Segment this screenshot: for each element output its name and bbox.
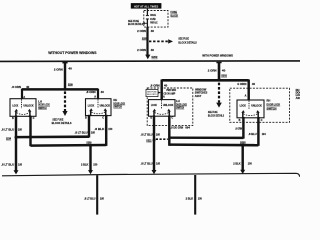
svg-text:2 ORN: 2 ORN <box>137 29 146 33</box>
svg-text:195: 195 <box>18 127 22 131</box>
svg-text:.8 LT BLU: .8 LT BLU <box>1 163 14 167</box>
wire label .8 LT BLU 195 bottom <box>1 163 22 167</box>
unlock bus wire <box>31 144 107 147</box>
see fuse block details note <box>208 110 224 118</box>
feed tick at separator <box>216 62 221 64</box>
svg-text:WITH POWER WINDOWS: WITH POWER WINDOWS <box>202 53 233 57</box>
RH door lock switch box <box>86 99 112 116</box>
arrow into S202 <box>145 55 150 60</box>
see fuse block ref box <box>146 89 161 96</box>
wire below breaker <box>146 19 148 27</box>
svg-text:CB 30 AMP: CB 30 AMP <box>163 92 175 96</box>
svg-text:C: C <box>33 117 35 120</box>
svg-text:SEE FUSE: SEE FUSE <box>147 91 157 93</box>
RH switch name label <box>267 98 281 110</box>
dashed link wire <box>156 138 168 140</box>
section separator line <box>0 60 300 63</box>
svg-text:40: 40 <box>151 29 155 33</box>
actuator feed wire <box>241 145 243 171</box>
switch throw contacts <box>241 110 259 118</box>
switch throw contacts <box>14 109 31 116</box>
switch throw contacts <box>153 109 171 116</box>
pivot dashed <box>97 99 99 108</box>
wire label .8 BLU 194 <box>248 132 266 136</box>
svg-text:HOT AT ALL TIMES: HOT AT ALL TIMES <box>134 5 159 9</box>
see fuse block details note left <box>128 19 143 26</box>
svg-text:LOCK: LOCK <box>151 103 157 107</box>
svg-text:UNLOCK: UNLOCK <box>100 103 110 107</box>
svg-text:.8 ORN: .8 ORN <box>11 85 21 89</box>
splice S209 label <box>68 82 73 86</box>
RH unlock wire down <box>257 118 259 146</box>
feed to actuators wire <box>89 145 91 171</box>
splice dot <box>89 144 92 147</box>
svg-text:C: C <box>102 117 104 120</box>
svg-text:BLOCK DETAILS: BLOCK DETAILS <box>128 22 143 26</box>
svg-text:UNLOCK: UNLOCK <box>251 104 262 108</box>
wire label 2 ORN 40 lower <box>137 48 154 52</box>
wire label .8 ORN 40 right <box>86 90 104 94</box>
LH switch name label <box>176 99 187 109</box>
RH power door lock switch box <box>237 100 264 118</box>
svg-text:LOCK: LOCK <box>12 103 18 107</box>
svg-text:40: 40 <box>222 68 226 72</box>
wire label .8 LT BLU 195 <box>1 127 22 131</box>
wire label .8 ORN 40 <box>150 83 168 87</box>
svg-text:40: 40 <box>151 48 155 52</box>
wire label .8 LT BLU 195 <box>75 130 96 134</box>
svg-text:S234: S234 <box>6 137 11 141</box>
I/P fuse block label <box>171 10 179 17</box>
drop wire to RH control <box>247 80 249 101</box>
svg-text:.8 DK GRN: .8 DK GRN <box>171 125 184 129</box>
svg-text:150: 150 <box>108 127 112 131</box>
circuit breaker U1 <box>146 15 149 20</box>
svg-text:BLOCK DETAILS: BLOCK DETAILS <box>208 114 224 118</box>
breaker value label <box>150 13 158 25</box>
wire label 4 ORN 40 <box>237 82 255 86</box>
feed bus wire <box>162 79 249 82</box>
pivot dashed <box>248 101 250 110</box>
svg-text:40: 40 <box>164 83 168 87</box>
pin junction blocks <box>153 115 155 117</box>
splice S202 label <box>151 55 157 59</box>
wire label .8 LT BLU 195 bottom <box>141 162 161 166</box>
RH control dashed box <box>230 88 290 122</box>
splice dot <box>64 88 67 91</box>
svg-text:195: 195 <box>18 163 22 167</box>
switch throw contacts <box>89 108 107 115</box>
RH lock wire down <box>88 116 90 138</box>
arrow actuator feed <box>88 170 93 174</box>
svg-text:2 BLK: 2 BLK <box>233 162 240 166</box>
svg-text:BLOCK DETAILS: BLOCK DETAILS <box>178 40 196 44</box>
feed wire 2 ORN left half <box>64 62 66 89</box>
svg-text:694: 694 <box>185 125 190 129</box>
fuse block dashed box <box>144 11 168 28</box>
wire label 2 ORN 40 upper <box>137 29 154 33</box>
drop wire to LH switch <box>21 89 23 99</box>
wire label .8 DK GRN 694 <box>171 125 191 129</box>
splice S211 label <box>146 139 152 143</box>
arrow LH lock output <box>152 170 157 174</box>
main feed wire 2 ORN <box>146 27 148 55</box>
svg-text:.8 LT BLU: .8 LT BLU <box>84 197 95 201</box>
svg-text:.8 ORN: .8 ORN <box>150 83 160 87</box>
svg-text:40: 40 <box>68 66 72 70</box>
svg-text:B: B <box>239 119 241 122</box>
dashed continuation arrow down <box>62 91 67 116</box>
svg-text:S202: S202 <box>151 55 157 59</box>
continuation wire bottom left <box>96 175 98 214</box>
svg-text:40: 40 <box>26 85 30 89</box>
drop wire to LH window master <box>160 80 162 100</box>
drop wire to RH switch <box>97 89 99 99</box>
LH unlock output wire <box>168 116 170 146</box>
svg-text:2 ORN: 2 ORN <box>54 68 63 72</box>
svg-text:.8 ORN: .8 ORN <box>86 90 96 94</box>
svg-text:2 ORN: 2 ORN <box>208 68 217 72</box>
LH switch name label <box>38 100 50 110</box>
window master assy label <box>195 88 208 98</box>
breaker note in assy <box>163 88 176 95</box>
wire label 2 BLK 150 <box>186 196 203 200</box>
splice S209b label <box>86 141 91 145</box>
svg-text:194: 194 <box>262 132 266 136</box>
svg-text:.8 BLK: .8 BLK <box>94 127 104 131</box>
dashed continuation arrow down <box>216 83 222 108</box>
continuation wire bottom right <box>194 175 196 215</box>
arrow actuator feed <box>240 170 245 174</box>
pin junction blocks <box>242 117 244 119</box>
splice S202 label <box>221 74 227 78</box>
see fuse block details note <box>52 117 72 125</box>
wire label 2 BLK 150 <box>81 162 98 166</box>
svg-text:2 ORN: 2 ORN <box>137 48 146 52</box>
svg-text:40: 40 <box>101 90 105 94</box>
arrow LH lock wire <box>14 170 19 174</box>
svg-text:B: B <box>150 117 152 120</box>
lock bus wire <box>16 135 89 138</box>
svg-text:195: 195 <box>156 162 160 166</box>
feed wire right half <box>218 62 221 81</box>
RH lock wire down <box>242 118 244 139</box>
svg-text:195: 195 <box>100 197 104 201</box>
LH unlock wire down <box>29 116 31 146</box>
svg-text:40: 40 <box>252 82 256 86</box>
svg-text:C: C <box>171 117 173 120</box>
svg-text:.8 LT BLU: .8 LT BLU <box>1 127 14 131</box>
svg-text:LOCK: LOCK <box>88 103 94 107</box>
splice S234 label <box>6 137 11 141</box>
svg-text:2 BLK: 2 BLK <box>81 162 88 166</box>
see fuse block details arrow left <box>142 22 147 25</box>
svg-text:.8 LT BLU: .8 LT BLU <box>141 162 153 166</box>
wire label 2 BLK 150 <box>233 162 252 166</box>
splice S505 label <box>240 140 246 144</box>
splice dot <box>15 136 18 139</box>
RH unlock wire down <box>105 116 107 146</box>
splice dot <box>153 139 156 142</box>
svg-text:ASSY: ASSY <box>296 96 300 100</box>
svg-text:195: 195 <box>156 133 160 137</box>
svg-text:B: B <box>12 117 14 120</box>
svg-text:.8 LT BLU: .8 LT BLU <box>141 133 153 137</box>
LH lock output wire <box>153 116 155 171</box>
svg-text:2 BLK: 2 BLK <box>186 196 194 200</box>
wire label 2 ORN 40 <box>54 66 72 71</box>
svg-text:4 ORN: 4 ORN <box>237 82 246 86</box>
LH power door lock switch box <box>149 100 176 117</box>
top bus wire left half <box>22 88 98 90</box>
pin junction blocks <box>15 115 17 117</box>
svg-text:150: 150 <box>248 162 252 166</box>
svg-text:PWR ACC: PWR ACC <box>150 21 158 25</box>
power feed title box HOT AT ALL TIMES <box>131 3 162 9</box>
svg-text:UNLOCK: UNLOCK <box>163 103 174 107</box>
see fuse block details note right <box>178 37 196 45</box>
svg-text:WITHOUT POWER WINDOWS: WITHOUT POWER WINDOWS <box>48 51 97 55</box>
svg-text:UNLOCK: UNLOCK <box>23 103 33 107</box>
wire label .8 ORN 40 left <box>11 85 29 89</box>
svg-text:B: B <box>85 117 87 120</box>
LH door lock switch box <box>10 99 36 117</box>
svg-text:.8 GRN: .8 GRN <box>235 126 242 130</box>
feed tick at separator <box>62 62 67 64</box>
pivot dashed <box>21 99 23 108</box>
pin junction blocks <box>88 115 90 117</box>
splice S205 label <box>142 36 147 40</box>
splice dot <box>241 144 244 147</box>
svg-text:A: A <box>245 95 247 98</box>
RH switch name label <box>113 98 125 108</box>
svg-text:150: 150 <box>93 162 97 166</box>
svg-text:.8 LT BLU: .8 LT BLU <box>75 130 88 134</box>
svg-text:.8 BLU: .8 BLU <box>248 132 256 136</box>
bottom separator line <box>2 173 300 177</box>
wire label 2 ORN 40 <box>208 68 226 72</box>
svg-text:S211: S211 <box>146 139 152 143</box>
svg-text:LOCK: LOCK <box>240 104 246 108</box>
svg-text:A: A <box>94 96 96 99</box>
svg-text:A: A <box>163 95 165 98</box>
wire label .8 BLK 150 <box>94 127 112 131</box>
wire into circuit breaker <box>146 9 148 16</box>
svg-text:150: 150 <box>198 196 202 200</box>
svg-text:C: C <box>261 119 263 122</box>
lower cross bus wire <box>169 143 258 146</box>
svg-text:BLK DETS: BLK DETS <box>147 94 157 96</box>
svg-text:A: A <box>23 96 25 99</box>
RH control assy label clipped <box>296 88 304 100</box>
LH lock wire down long <box>15 116 17 171</box>
svg-text:BLOCK DETAILS: BLOCK DETAILS <box>52 121 72 125</box>
wire label .8 LT BLU 195 <box>84 197 104 201</box>
dashed arrow to fuse block details <box>149 39 173 43</box>
upper cross bus wire <box>170 136 243 139</box>
wire label .8 LT BLU 195 <box>141 133 161 137</box>
LH window master dashed box <box>147 88 193 126</box>
svg-text:ASSY: ASSY <box>195 94 202 98</box>
pivot dashed <box>161 100 163 108</box>
